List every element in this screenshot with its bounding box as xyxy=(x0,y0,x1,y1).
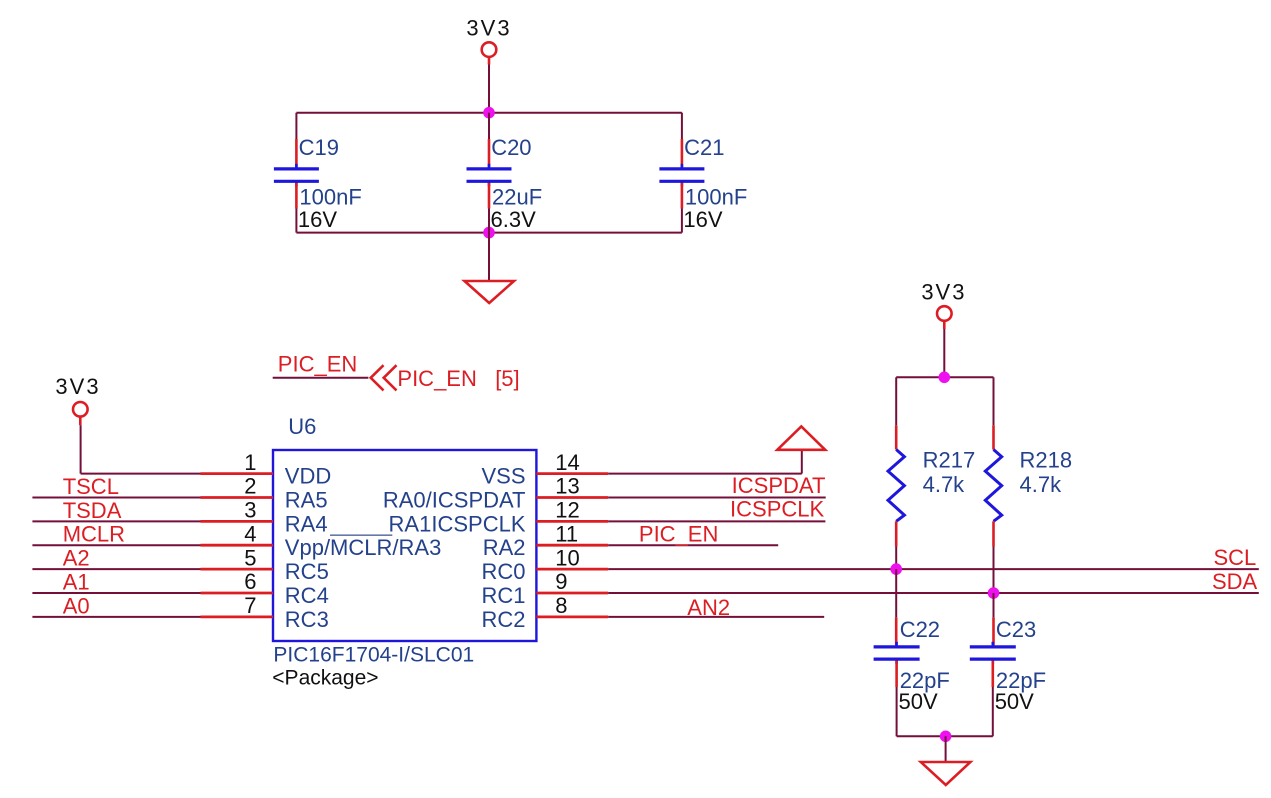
svg-text:9: 9 xyxy=(555,569,567,594)
svg-text:RC1: RC1 xyxy=(481,583,525,608)
svg-text:C20: C20 xyxy=(491,135,531,160)
svg-text:C23: C23 xyxy=(996,617,1036,642)
svg-text:14: 14 xyxy=(555,450,579,475)
svg-text:3V3: 3V3 xyxy=(921,279,966,304)
svg-text:13: 13 xyxy=(555,474,579,499)
svg-text:3: 3 xyxy=(244,498,256,523)
svg-text:VDD: VDD xyxy=(285,464,331,489)
svg-text:4: 4 xyxy=(244,521,256,546)
svg-text:100nF: 100nF xyxy=(685,185,747,210)
svg-text:AN2: AN2 xyxy=(687,595,730,620)
svg-text:PIC_EN: PIC_EN xyxy=(639,521,718,546)
svg-text:A0: A0 xyxy=(63,593,90,618)
svg-text:11: 11 xyxy=(555,521,578,546)
svg-text:16V: 16V xyxy=(683,207,722,232)
svg-text:ICSPCLK: ICSPCLK xyxy=(730,497,824,522)
svg-text:C21: C21 xyxy=(684,135,724,160)
svg-text:16V: 16V xyxy=(298,207,337,232)
svg-text:RC4: RC4 xyxy=(285,583,329,608)
svg-text:RA1ICSPCLK: RA1ICSPCLK xyxy=(389,511,526,536)
svg-text:4.7k: 4.7k xyxy=(923,472,966,497)
svg-text:10: 10 xyxy=(555,545,579,570)
svg-text:RC3: RC3 xyxy=(285,607,329,632)
svg-text:100nF: 100nF xyxy=(299,185,361,210)
svg-text:6.3V: 6.3V xyxy=(491,207,537,232)
svg-text:7: 7 xyxy=(244,593,256,618)
svg-text:RA2: RA2 xyxy=(483,535,526,560)
svg-text:SDA: SDA xyxy=(1212,569,1258,594)
svg-text:RA4: RA4 xyxy=(285,511,328,536)
svg-text:5: 5 xyxy=(244,545,256,570)
svg-text:MCLR: MCLR xyxy=(63,522,125,547)
svg-text:1: 1 xyxy=(244,450,256,475)
svg-text:A2: A2 xyxy=(63,546,90,571)
svg-text:22uF: 22uF xyxy=(492,185,542,210)
svg-text:RC2: RC2 xyxy=(481,607,525,632)
svg-text:SCL: SCL xyxy=(1214,545,1257,570)
svg-text:A1: A1 xyxy=(63,570,90,595)
svg-text:R217: R217 xyxy=(923,448,976,473)
svg-text:4.7k: 4.7k xyxy=(1020,472,1063,497)
svg-text:C19: C19 xyxy=(299,135,339,160)
svg-text:50V: 50V xyxy=(899,689,938,714)
svg-text:RA0/ICSPDAT: RA0/ICSPDAT xyxy=(383,488,526,513)
svg-text:3V3: 3V3 xyxy=(55,374,100,399)
svg-text:50V: 50V xyxy=(995,689,1034,714)
svg-text:R218: R218 xyxy=(1020,448,1073,473)
svg-text:TSCL: TSCL xyxy=(63,474,119,499)
svg-text:ICSPDAT: ICSPDAT xyxy=(732,473,826,498)
svg-text:C22: C22 xyxy=(900,617,940,642)
svg-text:PIC_EN [5]: PIC_EN [5] xyxy=(397,366,519,391)
svg-text:RC0: RC0 xyxy=(481,559,525,584)
svg-text:2: 2 xyxy=(244,474,256,499)
svg-text:PIC_EN: PIC_EN xyxy=(278,352,357,377)
svg-text:PIC16F1704-I/SLC01: PIC16F1704-I/SLC01 xyxy=(273,644,474,667)
svg-text:12: 12 xyxy=(555,498,579,523)
svg-text:Vpp/MCLR/RA3: Vpp/MCLR/RA3 xyxy=(285,535,442,560)
svg-text:<Package>: <Package> xyxy=(272,667,378,690)
svg-text:U6: U6 xyxy=(288,414,316,439)
svg-text:RA5: RA5 xyxy=(285,488,328,513)
svg-text:6: 6 xyxy=(244,569,256,594)
svg-text:VSS: VSS xyxy=(481,464,525,489)
svg-text:8: 8 xyxy=(555,593,567,618)
svg-text:3V3: 3V3 xyxy=(466,16,511,41)
svg-text:RC5: RC5 xyxy=(285,559,329,584)
svg-text:TSDA: TSDA xyxy=(63,498,122,523)
